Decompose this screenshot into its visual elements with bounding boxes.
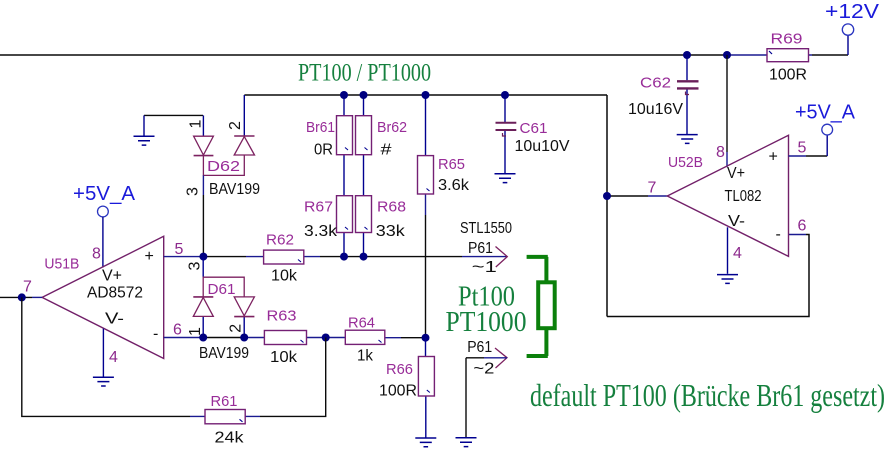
- svg-text:10u16V: 10u16V: [628, 101, 683, 118]
- svg-text:BAV199: BAV199: [209, 181, 260, 198]
- svg-text:7: 7: [23, 279, 32, 296]
- wire -input net (pin6 row): [203, 337, 425, 339]
- svg-text:Br61: Br61: [306, 119, 335, 136]
- ground (C61): [495, 174, 516, 183]
- svg-text:6: 6: [173, 322, 182, 339]
- wire U52B output pin 7: [607, 195, 648, 197]
- svg-text:+12V: +12V: [825, 1, 880, 23]
- svg-text:+: +: [769, 149, 778, 166]
- svg-text:BAV199: BAV199: [199, 345, 249, 362]
- svg-text:8: 8: [92, 246, 101, 263]
- svg-text:PT100 / PT1000: PT100 / PT1000: [298, 60, 431, 87]
- svg-text:100R: 100R: [379, 383, 417, 400]
- svg-text:AD8572: AD8572: [87, 285, 143, 302]
- svg-text:V+: V+: [102, 268, 122, 285]
- resistor R64: [345, 315, 385, 365]
- svg-text:5: 5: [798, 140, 807, 157]
- sensor Pt100 element (green): [527, 257, 555, 356]
- svg-text:33k: 33k: [376, 223, 406, 240]
- wire +input net (pin5 row): [203, 256, 462, 258]
- svg-text:TL082: TL082: [725, 188, 762, 205]
- svg-text:D61: D61: [208, 281, 236, 298]
- wire bus drop to U52B output: [606, 95, 608, 317]
- op-amp U52B: [648, 135, 807, 262]
- svg-text:STL1550: STL1550: [460, 220, 512, 237]
- svg-text:R67: R67: [304, 199, 333, 216]
- resistor Br61: [306, 95, 353, 196]
- svg-text:R65: R65: [438, 156, 465, 173]
- svg-text:default PT100 (Brücke Br61 ges: default PT100 (Brücke Br61 gesetzt): [530, 377, 885, 413]
- +5V_A terminal circle (U51B): [98, 206, 109, 217]
- connector P61 pin ~2: [466, 339, 507, 438]
- resistor R69: [767, 31, 809, 84]
- svg-text:P61: P61: [467, 339, 492, 356]
- svg-text:8: 8: [716, 144, 725, 161]
- resistor R65: [418, 95, 471, 338]
- resistor R62: [264, 232, 304, 285]
- svg-text:V+: V+: [727, 165, 745, 182]
- svg-text:0R: 0R: [314, 142, 333, 159]
- connector P61 pin ~1: [460, 220, 512, 276]
- wire PT100 bus: [244, 94, 607, 96]
- diode D62 (BAV199): [185, 95, 261, 198]
- wire U52B feedback loop: [607, 235, 809, 317]
- svg-text:10u10V: 10u10V: [515, 138, 570, 155]
- svg-text:2: 2: [227, 121, 244, 130]
- capacitor C61: [496, 95, 570, 174]
- svg-text:3.3k: 3.3k: [304, 223, 338, 240]
- svg-text:V-: V-: [728, 213, 745, 230]
- svg-text:3: 3: [187, 262, 204, 271]
- svg-text:10k: 10k: [271, 268, 298, 285]
- junction pin5/Br61: [340, 253, 348, 261]
- wire U52B pin 5: [806, 155, 827, 157]
- svg-text:C62: C62: [640, 75, 671, 92]
- svg-text:U51B: U51B: [44, 256, 79, 273]
- resistor Br62: [356, 95, 408, 196]
- svg-text:+5V_A: +5V_A: [795, 102, 856, 124]
- svg-text:1: 1: [187, 120, 204, 129]
- junction bus at C61: [501, 91, 509, 99]
- svg-text:100R: 100R: [769, 67, 807, 84]
- svg-text:2: 2: [228, 324, 245, 333]
- svg-text:~1: ~1: [472, 259, 497, 276]
- wire +12V terminal stem: [847, 35, 849, 55]
- resistor R68: [356, 196, 407, 257]
- svg-text:R62: R62: [266, 232, 294, 249]
- svg-text:1k: 1k: [357, 348, 374, 365]
- junction bus at R65: [422, 91, 430, 99]
- svg-text:#: #: [381, 142, 392, 159]
- wire U51B pin 7: [0, 296, 32, 298]
- wire +12V rail top: [0, 54, 848, 56]
- svg-text:V-: V-: [105, 311, 124, 328]
- wire U52B pin 8 from rail: [726, 55, 728, 152]
- wire feedback R61 loop: [22, 297, 326, 416]
- svg-text:R64: R64: [348, 315, 375, 332]
- junction R64/R65/R66: [422, 334, 430, 342]
- svg-text:R69: R69: [771, 31, 803, 48]
- svg-text:Br62: Br62: [377, 119, 407, 136]
- svg-text:3.6k: 3.6k: [438, 177, 470, 194]
- junction pin 7: [18, 293, 26, 301]
- ground (R66): [415, 438, 436, 447]
- wire R69 leads: [727, 54, 812, 56]
- svg-text:7: 7: [648, 180, 657, 197]
- junction top rail at U52B pin8: [723, 51, 731, 59]
- svg-text:R68: R68: [377, 199, 406, 216]
- svg-text:6: 6: [798, 218, 807, 235]
- wire P61 pin2 lead: [484, 357, 507, 359]
- svg-text:5: 5: [175, 241, 184, 258]
- ground (D62): [134, 115, 204, 145]
- resistor R61: [205, 393, 245, 447]
- svg-text:4: 4: [733, 245, 742, 262]
- svg-text:~2: ~2: [473, 361, 494, 378]
- junction pin6/D61-2: [240, 334, 248, 342]
- wire D62 pin3 to +input node: [202, 195, 204, 257]
- svg-text:P61: P61: [468, 240, 493, 257]
- +12V terminal circle: [842, 24, 853, 35]
- capacitor C62: [628, 55, 699, 134]
- wire U51B pin 8 stem: [102, 217, 104, 268]
- svg-text:R66: R66: [386, 361, 413, 378]
- svg-text:10k: 10k: [270, 349, 298, 366]
- junction pin6/D61-1: [199, 334, 207, 342]
- resistor R66: [379, 338, 434, 438]
- svg-text:U52B: U52B: [668, 154, 703, 171]
- diode D61 (BAV199): [187, 257, 255, 362]
- junction bus at Br61: [340, 91, 348, 99]
- wire +5V_A stem (U52B): [826, 135, 828, 156]
- svg-text:-: -: [776, 226, 781, 243]
- ground (U51B pin4): [93, 377, 114, 386]
- junction R63/R64: [322, 334, 330, 342]
- junction top rail at C62: [683, 51, 691, 59]
- svg-text:R61: R61: [211, 393, 238, 410]
- junction pin5/Br62: [360, 253, 368, 261]
- svg-text:C61: C61: [520, 120, 548, 137]
- svg-text:D62: D62: [207, 158, 240, 175]
- svg-text:PT1000: PT1000: [446, 306, 527, 338]
- junction bus at Br62: [360, 91, 368, 99]
- svg-text:+5V_A: +5V_A: [73, 183, 136, 205]
- wire U51B pin 4: [102, 329, 104, 378]
- resistor R67: [304, 196, 353, 257]
- svg-text:3: 3: [185, 187, 202, 196]
- svg-text:24k: 24k: [215, 430, 245, 447]
- svg-text:+: +: [145, 248, 154, 265]
- svg-text:R63: R63: [267, 308, 297, 325]
- wire U52B pin 6 lead: [789, 234, 807, 236]
- ground (P61 ~2): [456, 438, 477, 447]
- +5V_A terminal circle (U52B): [822, 124, 833, 135]
- ground (U52B pin4): [717, 275, 738, 284]
- ground (C62): [677, 135, 698, 144]
- junction U52B output: [603, 192, 611, 200]
- svg-text:-: -: [153, 326, 158, 343]
- junction pin5/D62: [199, 253, 207, 261]
- resistor R63: [264, 308, 306, 367]
- wire U52B pin 4: [727, 227, 729, 273]
- op-amp U51B: [23, 236, 184, 366]
- svg-text:4: 4: [109, 349, 118, 366]
